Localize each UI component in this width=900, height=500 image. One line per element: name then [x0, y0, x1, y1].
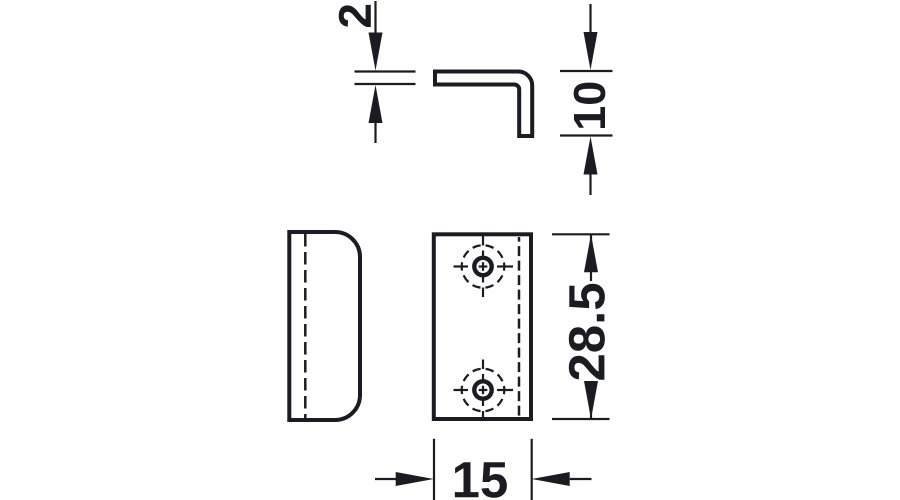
dimension 15: right arrowhead	[532, 472, 570, 486]
dimension 2: upper dimension line	[374, 1, 376, 34]
dimension 2: lower arrowhead	[369, 85, 383, 123]
dimension 15: label	[455, 462, 507, 498]
dimension 2: lower dimension line	[374, 123, 376, 143]
screw hole 2: cross recess	[479, 386, 488, 394]
screw hole 2: horizontal centerline	[454, 389, 514, 391]
dimension 10: upper arrowhead	[584, 32, 598, 70]
screw hole 1: cross recess	[479, 262, 488, 271]
dimension 10: top extension line	[560, 70, 613, 72]
plate: hidden bend dashed line	[518, 237, 521, 417]
dimension 28.5: upper arrowhead	[584, 234, 598, 272]
dimension 10: lower dimension line	[589, 175, 591, 196]
dimension 15: left extension line	[433, 439, 435, 500]
dimension 10: bottom extension line	[560, 134, 613, 136]
dimension 15: left dimension line	[375, 478, 396, 480]
dimension 28.5: bottom extension line	[552, 418, 610, 420]
screw hole 2: screw ring	[474, 381, 491, 398]
dimension 10: upper dimension line	[589, 4, 591, 33]
dimension 10: lower arrowhead	[584, 137, 598, 175]
bracket side view: hidden edge dashed line	[304, 234, 307, 418]
screw hole 1: horizontal centerline	[454, 265, 514, 267]
dimension 28.5: upper line segment	[590, 234, 592, 281]
dimension 2: upper arrowhead	[369, 33, 383, 71]
dimension 2: bottom extension line	[355, 83, 416, 85]
bracket side view (D-shape)	[289, 232, 360, 420]
dimension 2: top extension line	[355, 70, 416, 72]
screw hole 1: dashed countersink circle	[462, 245, 505, 288]
mounting plate front view	[434, 234, 531, 419]
dimension 15: right extension line	[531, 439, 533, 500]
dimension 28.5: top extension line	[552, 233, 610, 235]
angle profile side view (L-shape)	[435, 71, 532, 136]
dimension 28.5: lower arrowhead	[584, 381, 598, 419]
dimension 10: label	[574, 83, 606, 128]
screw hole 1: screw ring	[474, 258, 491, 275]
dimension 15: right dimension line	[570, 478, 592, 480]
dimension 28.5: label	[569, 284, 605, 380]
dimension 2: label	[339, 5, 371, 27]
screw hole 1: vertical centerline	[482, 236, 484, 297]
dimension 15: left arrowhead	[396, 472, 434, 486]
screw hole 2: vertical centerline	[482, 360, 484, 421]
dimension 28.5: lower line segment	[590, 382, 592, 419]
screw hole 2: dashed countersink circle	[462, 369, 505, 412]
